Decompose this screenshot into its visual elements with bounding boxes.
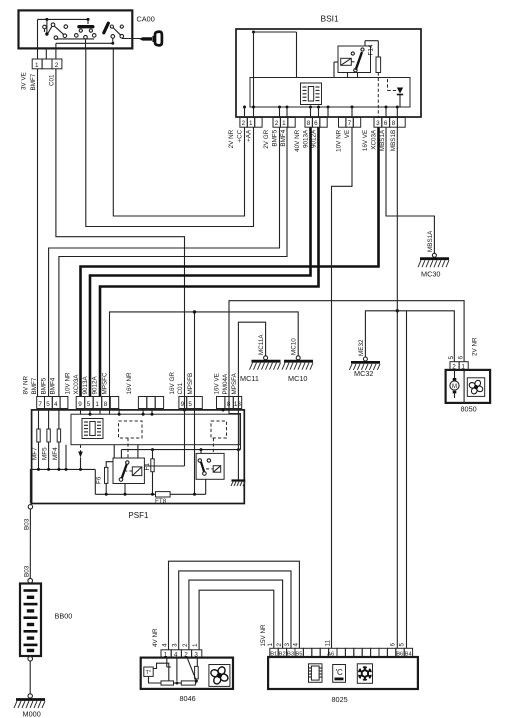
- wire MPSFC-MPSFB net: PSF1 pin8/pin5 to ground MC10: [110, 312, 299, 408]
- svg-text:4: 4: [162, 643, 169, 647]
- svg-text:6: 6: [457, 356, 464, 360]
- CA00 switch group 3: [104, 23, 124, 38]
- svg-text:2: 2: [242, 120, 246, 127]
- PSF1 C01 internal wire: [144, 408, 184, 466]
- CA00 internal bottom wires: [38, 19, 115, 59]
- PSF1 box: [32, 410, 245, 504]
- svg-text:2V GR: 2V GR: [263, 129, 270, 148]
- svg-text:1: 1: [192, 643, 199, 647]
- svg-text:MC32: MC32: [354, 369, 373, 378]
- svg-text:5: 5: [87, 401, 91, 408]
- svg-text:7: 7: [38, 401, 42, 408]
- svg-text:6: 6: [389, 643, 396, 647]
- fuse F14: [365, 41, 381, 117]
- svg-text:3: 3: [284, 643, 291, 647]
- PSF1 pin stub wires into module: [81, 409, 225, 416]
- svg-text:2V NR: 2V NR: [472, 337, 479, 356]
- svg-text:C01: C01: [49, 74, 56, 86]
- svg-text:4V NR: 4V NR: [152, 628, 159, 647]
- PSF1 dashed logic box A: [119, 421, 143, 438]
- PSF1 PM04A internal wire: [229, 408, 241, 450]
- svg-text:4: 4: [54, 401, 58, 408]
- CA00 switch group 1: [43, 19, 68, 39]
- svg-text:MF7: MF7: [32, 447, 39, 460]
- svg-text:6: 6: [314, 120, 318, 127]
- ground MC11: [250, 356, 281, 370]
- CA00 internal supply rail: [38, 18, 90, 21]
- wire XC03A net (thick): BSI1 pin3 to PSF1 pin9: [81, 127, 379, 396]
- svg-text:1: 1: [267, 643, 274, 647]
- svg-text:MBS1A: MBS1A: [427, 230, 434, 252]
- svg-text:7: 7: [348, 120, 352, 127]
- svg-text:′C: ′C: [336, 668, 344, 677]
- 8046 resistor R2: [181, 681, 195, 685]
- 8046 resistor R3 vertical: [195, 666, 199, 679]
- svg-text:1: 1: [35, 62, 39, 69]
- svg-text:3: 3: [172, 643, 179, 647]
- svg-text:MPSFA: MPSFA: [231, 372, 238, 394]
- svg-text:VE: VE: [344, 130, 351, 138]
- PSF1 module-relay wires: [78, 438, 138, 469]
- wire VE net: BSI1 pin7 to 8025 pin A6: [332, 127, 353, 648]
- PSF1 internal module box: [71, 414, 240, 445]
- svg-text:2V NR: 2V NR: [228, 129, 235, 148]
- 8046 to 8025 loop wire 1: [199, 590, 274, 650]
- 8046 resistor R1: [161, 681, 174, 685]
- svg-text:T°: T°: [146, 670, 152, 676]
- svg-text:MPSFB: MPSFB: [187, 373, 194, 395]
- svg-text:MC30: MC30: [421, 270, 440, 279]
- svg-text:C01: C01: [177, 382, 184, 394]
- junction MBS1B / ME32: [396, 309, 399, 312]
- BSI1 box: [236, 29, 421, 117]
- svg-text:1: 1: [95, 401, 99, 408]
- svg-text:2: 2: [55, 62, 59, 69]
- svg-text:MC10: MC10: [288, 374, 307, 383]
- svg-text:PM04A: PM04A: [222, 373, 229, 394]
- svg-text:16V VE: 16V VE: [362, 130, 369, 151]
- svg-text:MF4: MF4: [52, 447, 59, 460]
- key symbol: [122, 32, 162, 46]
- ignition switch CA00 box: [19, 10, 133, 48]
- svg-text:8: 8: [227, 401, 231, 408]
- BSI1 relay feed wire: [252, 31, 338, 118]
- 8025 snowflake icon: [357, 664, 372, 684]
- CA00 switch group 2: [75, 19, 96, 48]
- svg-text:9: 9: [78, 401, 82, 408]
- svg-text:16V VE: 16V VE: [214, 373, 221, 394]
- wire BMF4 net: BSI1 to PSF1 pin4: [59, 127, 287, 396]
- svg-text:F6: F6: [95, 476, 102, 484]
- svg-text:4: 4: [293, 643, 300, 647]
- svg-text:9013A: 9013A: [303, 129, 310, 148]
- svg-text:BB00: BB00: [55, 612, 73, 621]
- svg-text:F1: F1: [144, 463, 151, 471]
- 8050 motor M: [450, 370, 464, 403]
- svg-text:15V NR: 15V NR: [260, 624, 267, 647]
- svg-text:3: 3: [376, 120, 380, 127]
- BSI1 pin stubs and junction dots: [243, 106, 399, 118]
- svg-text:+CC: +CC: [237, 129, 244, 142]
- wire PM04A net: PSF1 pin8 to 8050 pin1: [229, 301, 464, 408]
- svg-text:5: 5: [399, 643, 406, 647]
- svg-text:F14: F14: [367, 44, 374, 55]
- svg-text:10V NR: 10V NR: [65, 372, 72, 395]
- 8046 to 8025 loop wire 2: [189, 580, 283, 650]
- BSI1 diode component: [388, 79, 404, 107]
- BSI1 relay: [338, 46, 371, 78]
- svg-text:CA00: CA00: [137, 15, 155, 24]
- svg-text:B03: B03: [24, 565, 31, 577]
- svg-text:+AA: +AA: [246, 129, 253, 142]
- svg-text:40V NR: 40V NR: [294, 129, 301, 152]
- wire battery to ground M000: [29, 661, 31, 694]
- ground MC32: [349, 357, 380, 370]
- svg-text:5: 5: [448, 356, 455, 360]
- svg-text:8025: 8025: [332, 695, 348, 704]
- svg-text:MPSFC: MPSFC: [102, 372, 109, 394]
- svg-text:5: 5: [188, 401, 192, 408]
- PSF1 module connector symbol: [82, 419, 103, 439]
- PSF1 bottom rail with FT8: [95, 479, 205, 497]
- svg-text:13: 13: [234, 401, 242, 408]
- svg-text:MBS1B: MBS1B: [390, 130, 397, 151]
- 8046 fan icon: [209, 665, 230, 687]
- BSI1 connector cells row: [240, 118, 405, 128]
- svg-text:BMF4: BMF4: [50, 377, 57, 394]
- 8046 internal wires: [167, 658, 198, 685]
- junction MPSFB: [193, 310, 196, 313]
- wire MPSFB branch: [194, 312, 196, 408]
- 8046 box: [141, 658, 233, 689]
- PSF1 fuse F1: [121, 448, 240, 494]
- wire BMF7 net: CA00 pin1 to PSF1 pin7: [37, 69, 39, 397]
- ground MC30: [418, 253, 449, 267]
- svg-text:8046: 8046: [180, 694, 196, 703]
- battery BB00: [20, 578, 41, 661]
- svg-text:9: 9: [181, 401, 185, 408]
- PSF1 fuse MF4: [57, 409, 60, 470]
- wire +AA net: BSI1 pin1 to CA00: [86, 48, 254, 226]
- PSF1 right relay: [196, 438, 224, 479]
- wire branch to 8025 B4: [406, 311, 408, 649]
- wire 9012A net (thick): BSI1 pin6 to PSF1 pin1: [100, 127, 319, 396]
- svg-text:8V NR: 8V NR: [23, 376, 30, 395]
- svg-text:2: 2: [276, 643, 283, 647]
- PSF1 internal ground: [231, 481, 245, 487]
- svg-text:ME32: ME32: [358, 339, 365, 356]
- svg-text:1: 1: [249, 120, 253, 127]
- svg-text:1: 1: [282, 120, 286, 127]
- svg-text:8050: 8050: [461, 405, 477, 414]
- 8046 to 8025 loop wire 3: [179, 571, 291, 650]
- wire C01 net: CA00 pin2 to PSF1 pin9: [56, 69, 185, 408]
- wire B03 battery feed: [29, 509, 31, 578]
- svg-text:10V NR: 10V NR: [336, 129, 343, 152]
- svg-text:16V NR: 16V NR: [126, 372, 133, 395]
- svg-text:FT8: FT8: [155, 498, 167, 505]
- svg-text:6: 6: [384, 120, 388, 127]
- svg-text:5: 5: [46, 401, 50, 408]
- ground M000: [14, 694, 45, 708]
- wire +CC net: BSI1 pin2 to CA00: [113, 48, 244, 216]
- svg-text:2: 2: [275, 120, 279, 127]
- svg-text:BMF4: BMF4: [280, 129, 287, 146]
- 8025 temperature icon: [333, 665, 346, 683]
- connector C01 pins 1,2 of CA00: [32, 59, 62, 69]
- svg-text:MF5: MF5: [42, 447, 49, 460]
- PSF1 fuse MF5: [47, 409, 50, 470]
- svg-text:B03: B03: [24, 518, 31, 530]
- svg-text:M: M: [452, 384, 457, 390]
- wire MPSFA net: PSF1 pin13 to ground MC11: [238, 322, 265, 408]
- svg-text:PSF1: PSF1: [128, 511, 149, 520]
- 8025 IC chip icon: [309, 664, 323, 683]
- BSI1 internal bus rect: [250, 78, 410, 108]
- 8046 to 8025 loop wire 4: [169, 561, 300, 650]
- wire 9013A net (thick): BSI1 pin8 to PSF1 pin5: [90, 127, 311, 396]
- PSF1 connector cells: [37, 397, 242, 409]
- svg-text:9013A: 9013A: [82, 375, 89, 394]
- ground MC10: [282, 356, 313, 370]
- svg-text:MC10: MC10: [291, 338, 298, 355]
- B03 terminal at PSF1: [28, 505, 32, 509]
- 8025 box: [268, 657, 418, 689]
- 8046 connector cells: [161, 650, 202, 659]
- wire MBS1B net: BSI1 pin8 to 8025 pin B6: [396, 127, 398, 648]
- svg-text:BSI1: BSI1: [321, 13, 339, 23]
- svg-text:BMF7: BMF7: [31, 377, 38, 394]
- svg-text:2: 2: [182, 643, 189, 647]
- PSF1 supply bus: [30, 445, 95, 504]
- svg-text:MBS1A: MBS1A: [379, 129, 386, 151]
- 8046 thermal switch T: [144, 663, 169, 683]
- PSF1 MPSFB internal wire: [193, 408, 196, 496]
- wire MBS1A net: BSI1 pin6 to ground MC30: [386, 127, 434, 253]
- svg-text:XC03A: XC03A: [73, 374, 80, 395]
- svg-text:BMF5: BMF5: [272, 129, 279, 146]
- svg-text:8: 8: [307, 120, 311, 127]
- svg-text:MC11: MC11: [240, 374, 259, 383]
- svg-text:BMF7: BMF7: [30, 73, 37, 90]
- wire ME32 ground net: MC32 to 8050 pin2 and 8025 pin B4: [365, 311, 454, 362]
- BSI1 internal connector symbol: [301, 83, 322, 105]
- wire BMF5 net: BSI1 to PSF1 pin5: [49, 127, 280, 396]
- 8050 fan icon: [467, 378, 484, 397]
- svg-text:9012A: 9012A: [92, 375, 99, 394]
- svg-text:BMF5: BMF5: [41, 377, 48, 394]
- svg-text:8: 8: [392, 120, 396, 127]
- svg-text:M000: M000: [23, 710, 41, 718]
- svg-text:3V VE: 3V VE: [21, 72, 28, 90]
- PSF1 dashed logic box B: [211, 421, 227, 438]
- svg-text:MC11A: MC11A: [258, 334, 265, 355]
- svg-text:16V GR: 16V GR: [169, 372, 176, 395]
- svg-text:XC03A: XC03A: [371, 129, 378, 150]
- PSF1 left relay: [113, 458, 144, 494]
- 8025 connector cells: [270, 648, 413, 657]
- PSF1 fuse F6: [105, 462, 114, 495]
- 8050 connector cells: [450, 362, 468, 371]
- svg-text:8: 8: [104, 401, 108, 408]
- 8050 box: [446, 370, 491, 403]
- PSF1 fuse MF7: [37, 409, 40, 470]
- PSF1 MPSFA internal wire to internal ground: [237, 408, 239, 481]
- svg-text:11: 11: [325, 639, 332, 646]
